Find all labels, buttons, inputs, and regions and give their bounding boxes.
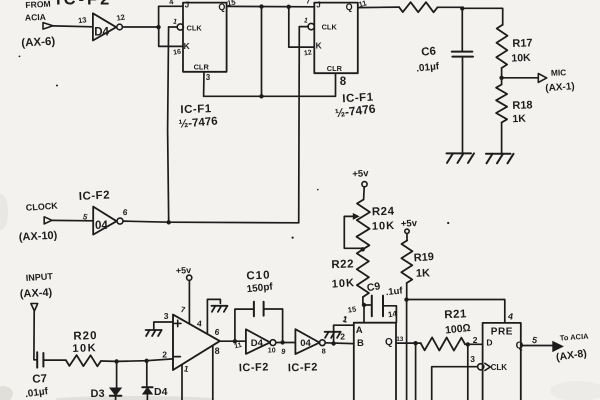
paper shading smudges	[0, 194, 600, 400]
svg-text:(AX-4): (AX-4)	[20, 287, 53, 301]
svg-text:8: 8	[215, 346, 220, 356]
svg-text:16: 16	[173, 49, 182, 57]
wire inv3 to inv4	[276, 342, 296, 344]
svg-text:2: 2	[340, 332, 345, 342]
pin 8 label inv4	[322, 346, 326, 355]
pin 2 label PRE	[473, 335, 478, 345]
diode D3	[110, 362, 122, 400]
bubble inverter U-D4a	[117, 24, 123, 30]
svg-text:R24: R24	[372, 206, 395, 219]
wire C6 to ground	[462, 57, 464, 153]
flip-flop IC-F1a (1/2-7476)	[183, 1, 227, 72]
wire inv4 to one-shot	[325, 342, 354, 345]
value label 10K (R24)	[372, 220, 396, 233]
pin 4 label	[197, 318, 203, 328]
connector arrow CLOCK	[44, 217, 52, 224]
pin 11 label	[234, 342, 243, 350]
junction CLR net / node B	[259, 94, 263, 98]
value label 1K (R19)	[416, 267, 431, 279]
value label 10K (R22)	[331, 277, 355, 291]
ground (op-amp +input)	[146, 330, 162, 336]
resistor R17	[496, 25, 507, 78]
wire C9 left lead	[363, 305, 372, 323]
junction MIC node	[499, 76, 503, 80]
wire +5V to R24	[363, 187, 366, 200]
pin 8 label	[215, 346, 220, 356]
pin 14 label	[387, 309, 398, 319]
svg-text:K: K	[184, 41, 190, 51]
terminal +5V (R24)	[352, 168, 369, 187]
wire Q13 node down	[415, 343, 417, 400]
inverter U-D4c (IC-F2)	[246, 329, 270, 354]
junction C9 left node	[362, 303, 366, 307]
pin 15 label	[347, 305, 357, 315]
svg-text:12: 12	[304, 49, 313, 57]
wire R20 to op-amp	[101, 359, 173, 362]
diode D4	[142, 361, 152, 400]
junction node A	[156, 25, 160, 29]
svg-text:R20: R20	[73, 330, 98, 343]
connector arrow MIC	[538, 74, 546, 83]
svg-text:+5v: +5v	[352, 168, 369, 180]
pin 16 label	[173, 49, 182, 57]
junction D3 node	[114, 359, 118, 363]
pin 2 label	[162, 349, 167, 359]
connector arrow INPUT	[31, 304, 38, 312]
svg-text:CLK: CLK	[187, 23, 203, 32]
wire R16 to node D	[438, 6, 463, 8]
wire clock trunk to FF2	[298, 27, 301, 223]
junction node D	[460, 6, 464, 10]
pin 1 label	[172, 16, 178, 26]
svg-text:IC-F2: IC-F2	[79, 189, 111, 203]
wire pin4 ground staple	[207, 299, 220, 333]
svg-text:10K: 10K	[511, 52, 531, 65]
svg-text:R18: R18	[512, 99, 533, 112]
ground (op-amp pin4)	[211, 306, 227, 312]
pin 8 label	[340, 76, 347, 88]
value label .1uf (C9)	[385, 285, 404, 298]
wire +input to ground	[154, 322, 173, 330]
svg-text:.1uf: .1uf	[385, 285, 404, 298]
svg-text:B: B	[357, 338, 364, 349]
wire Q1 to FF2 J	[227, 5, 315, 7]
clock wedge PRE	[485, 363, 491, 370]
junction node B (Q1/CLR tie)	[259, 4, 263, 8]
label IC-F1 (first)	[180, 103, 212, 116]
wire clock trunk to FF1	[168, 27, 169, 222]
bubble inverter U-D4b	[117, 218, 123, 224]
label CLK PRE	[491, 363, 508, 372]
svg-text:D4: D4	[251, 338, 264, 349]
flip-flop IC-F1b (1/2-7476)	[314, 0, 358, 73]
junction clock line	[167, 220, 171, 224]
svg-text:13: 13	[78, 15, 88, 25]
pin 13 label	[396, 336, 404, 343]
pin 10 label	[268, 348, 276, 355]
label R22	[331, 258, 354, 271]
bubble CLK1	[177, 24, 183, 30]
bubble CLK PRE	[478, 364, 484, 370]
pin 5 label PRE	[531, 335, 538, 346]
svg-text:D3: D3	[91, 388, 105, 400]
svg-text:R19: R19	[413, 251, 434, 264]
label R19	[413, 251, 434, 264]
wire node D to R17	[463, 8, 503, 25]
svg-text:3: 3	[206, 73, 211, 82]
label D4	[154, 386, 168, 398]
value label .01uf (C6)	[416, 61, 441, 74]
value label 10K (R17)	[511, 52, 531, 65]
svg-text:FROM: FROM	[25, 0, 51, 10]
svg-text:C7: C7	[32, 373, 47, 386]
wire CLR net	[204, 72, 336, 96]
label D3	[91, 388, 105, 400]
svg-text:1K: 1K	[512, 113, 526, 125]
wire op-amp lower pin down	[212, 346, 214, 400]
svg-text:R22: R22	[331, 258, 354, 271]
junction R19 node	[404, 297, 408, 301]
wire node B down to CLR net	[261, 7, 263, 97]
label INPUT	[25, 271, 53, 283]
svg-text:IC-F2: IC-F2	[288, 361, 318, 374]
wire op-amp pin1 down	[181, 365, 183, 400]
pin 15 label	[226, 0, 237, 8]
svg-text:CLK: CLK	[322, 23, 338, 32]
junction pin1 staple node	[331, 341, 335, 345]
svg-text:15: 15	[347, 305, 357, 315]
pin 9 label	[280, 347, 286, 357]
wire R21 to PRE	[465, 343, 483, 345]
svg-text:04: 04	[95, 220, 108, 232]
label R17	[512, 37, 533, 50]
resistor R21	[421, 337, 465, 350]
svg-text:(AX-6): (AX-6)	[21, 36, 56, 50]
bubble CLK2	[308, 23, 314, 29]
wire CLOCK to inverter	[52, 219, 93, 221]
wire +5V stub (op-amp)	[188, 280, 190, 323]
node: FROM ACIA input label	[21, 0, 56, 49]
svg-text:C6: C6	[421, 46, 437, 59]
label C9	[366, 280, 381, 294]
svg-text:MIC: MIC	[551, 67, 567, 78]
pin 7 label	[306, 0, 310, 5]
wire node C down to K2	[289, 7, 315, 47]
svg-text:Q: Q	[385, 337, 393, 348]
svg-text:PRE: PRE	[491, 327, 513, 338]
svg-text:R21: R21	[444, 308, 467, 321]
inverter U-D4b (IC-F2 clock)	[93, 207, 116, 235]
pin 1 label C9	[342, 314, 349, 324]
svg-text:13: 13	[396, 336, 404, 343]
svg-text:(AX-10): (AX-10)	[19, 230, 58, 244]
label IC-F1 (second)	[342, 92, 374, 106]
wire +5V to R19	[406, 234, 408, 241]
label R18	[512, 99, 533, 112]
svg-text:7: 7	[306, 0, 310, 5]
svg-text:INPUT: INPUT	[25, 271, 53, 283]
wire Q2 out	[358, 6, 399, 9]
resistor R18	[496, 78, 507, 153]
speck	[317, 189, 319, 191]
junction node C (J2/K2 tie)	[287, 5, 291, 9]
pin 3 label	[164, 311, 169, 321]
svg-text:10: 10	[268, 348, 276, 355]
value label 100ohm (R21)	[445, 322, 472, 337]
wire node D down to C6	[461, 9, 463, 51]
label C7	[32, 373, 47, 386]
label (AX-1)	[545, 81, 575, 94]
pin 3 label	[206, 73, 211, 82]
pin 4 label PRE	[507, 311, 514, 322]
wire C10 left leg	[235, 309, 254, 341]
label R21	[444, 308, 467, 321]
svg-text:(AX-1): (AX-1)	[545, 81, 575, 94]
svg-text:Q: Q	[346, 2, 353, 12]
wire clock line	[123, 221, 299, 223]
label R24	[372, 206, 395, 219]
junction R21/D node	[466, 342, 470, 346]
wire R19 to PRE pin4	[407, 300, 505, 323]
label IC-F2 (top, cut off)	[56, 0, 112, 9]
label IC-F2 (fourth)	[288, 361, 318, 374]
label CLOCK	[25, 201, 58, 213]
svg-text:2: 2	[473, 335, 478, 345]
ground (R18)	[486, 154, 514, 164]
speck	[56, 85, 58, 87]
svg-text:R17: R17	[512, 37, 533, 50]
wire MIC out	[502, 77, 538, 79]
wire node A up to J1	[159, 6, 183, 27]
wire ACIA input to inverter	[53, 25, 93, 28]
pin 11 label	[358, 0, 369, 9]
svg-text:+5v: +5v	[401, 218, 418, 230]
pin 6 label	[122, 207, 129, 218]
wire CLK2 stub	[299, 26, 308, 28]
wire CLK1 stub	[169, 26, 178, 28]
wire op-amp out	[220, 340, 246, 342]
svg-text:1K: 1K	[416, 267, 431, 279]
svg-text:14: 14	[387, 309, 398, 319]
wire CLK staple PRE	[432, 367, 478, 400]
svg-text:A: A	[356, 325, 363, 336]
flip-flop U3 (PRE)	[483, 323, 524, 400]
pin 5 label	[82, 212, 90, 222]
bubble inverter U-D4c	[270, 340, 276, 346]
label IC-F2 (clock inverter)	[79, 189, 111, 203]
connector arrow To ACIA	[553, 342, 563, 352]
value label 150pf (C10)	[246, 282, 274, 296]
label To ACIA	[560, 332, 590, 343]
svg-text:+5v: +5v	[176, 265, 192, 276]
label (AX-10)	[19, 230, 58, 244]
label (AX-8)	[555, 347, 587, 363]
svg-text:CLK: CLK	[491, 363, 508, 372]
pin 3 label PRE	[470, 354, 475, 364]
svg-text:CLR: CLR	[194, 63, 210, 72]
inverter U-D4d (IC-F2)	[295, 329, 319, 354]
label C10	[246, 270, 271, 283]
wire C7 to R20	[44, 359, 66, 361]
pin 6 label	[214, 327, 221, 338]
resistor R22	[357, 249, 369, 304]
pin 12 label	[116, 12, 126, 22]
label C6	[421, 46, 437, 59]
wire node A down to K1	[159, 27, 183, 46]
wire inverter out to node A	[122, 26, 158, 28]
op-amp U1	[173, 315, 220, 370]
label R20	[73, 330, 98, 343]
svg-text:J: J	[185, 1, 189, 10]
svg-text:10K: 10K	[331, 277, 355, 291]
capacitor C9	[372, 296, 383, 317]
speck	[19, 56, 21, 58]
junction C10 right node	[280, 340, 284, 344]
svg-text:10K: 10K	[72, 342, 97, 355]
value label .01uf (C7)	[24, 386, 49, 400]
svg-text:C10: C10	[246, 270, 271, 283]
svg-text:12: 12	[116, 12, 126, 22]
svg-text:3: 3	[470, 354, 475, 364]
svg-text:10K: 10K	[372, 220, 396, 233]
svg-text:C9: C9	[366, 280, 381, 294]
svg-text:D: D	[486, 338, 492, 348]
pin 1 label one-shot	[342, 315, 349, 325]
resistor R16 (unlabeled, top)	[399, 2, 438, 12]
wire Q PRE out	[521, 345, 553, 347]
junction D4 node	[144, 359, 148, 363]
junction R24/R22 node	[361, 247, 365, 251]
speck	[447, 222, 449, 224]
wire Q13 out	[396, 342, 421, 344]
wire C10 right leg	[264, 309, 283, 342]
wire D node down	[467, 345, 469, 400]
svg-text:IC-F1: IC-F1	[180, 103, 212, 116]
svg-text:8: 8	[322, 346, 326, 355]
svg-text:ACIA: ACIA	[25, 12, 46, 23]
svg-text:04: 04	[300, 338, 311, 349]
svg-text:Q: Q	[218, 2, 225, 12]
pin 13 label	[78, 15, 88, 25]
svg-text:D4: D4	[94, 27, 109, 39]
label MIC	[551, 67, 567, 78]
wire INPUT down to C7	[34, 311, 37, 360]
svg-text:3: 3	[164, 311, 169, 321]
bubble inverter U-D4d	[319, 340, 325, 346]
svg-text:8: 8	[340, 76, 347, 88]
junction C10 left node	[233, 339, 237, 343]
value label 1K (R18)	[512, 113, 526, 125]
label IC-F2 (third)	[239, 361, 269, 374]
pin 1 label FF2	[303, 17, 309, 25]
capacitor C10	[254, 302, 264, 317]
svg-text:IC-F2: IC-F2	[56, 0, 112, 9]
pin 2 label one-shot	[340, 332, 345, 342]
value label 10K (R20)	[72, 342, 97, 355]
terminal +5V (op-amp)	[176, 265, 192, 280]
value label 1/2-7476 (first)	[178, 115, 218, 130]
svg-text:J: J	[316, 0, 320, 9]
capacitor C7	[37, 352, 43, 367]
junction Q13 node	[413, 341, 417, 345]
pin 7 label	[180, 305, 187, 315]
svg-text:K: K	[316, 41, 322, 51]
svg-text:IC-F2: IC-F2	[239, 361, 269, 374]
one-shot U2 (A/B box)	[354, 323, 396, 400]
resistor R19	[401, 241, 412, 300]
wire pin1 staple	[334, 325, 354, 343]
pin 12 label FF2	[304, 49, 313, 57]
wire R19 node down	[406, 300, 408, 400]
ground (C6)	[447, 153, 475, 163]
speck	[292, 237, 294, 239]
svg-text:2: 2	[162, 349, 167, 359]
pin 1 label	[183, 363, 190, 374]
connector arrow FROM ACIA	[43, 23, 53, 30]
potentiometer R24	[344, 200, 370, 250]
resistor R20	[66, 355, 101, 366]
label (AX-4)	[20, 287, 53, 301]
capacitor C6	[452, 52, 473, 57]
svg-text:D4: D4	[154, 386, 168, 398]
inverter U-D4a (IC-F2)	[93, 13, 116, 40]
svg-text:CLR: CLR	[327, 64, 343, 73]
wire C9 right lead	[383, 306, 396, 323]
terminal +5V (R19)	[401, 218, 418, 234]
value label 1/2-7476 (second)	[334, 101, 376, 120]
ground (one-shot)	[325, 332, 341, 338]
pin 4 label	[169, 0, 175, 7]
